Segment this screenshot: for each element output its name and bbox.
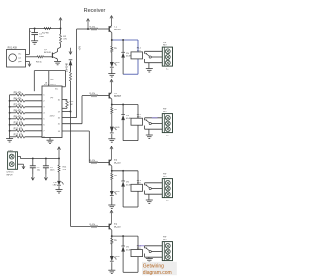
transistor T4 (109, 223, 122, 230)
svg-text:Vcc: Vcc (55, 88, 58, 90)
resistor R7 address A2 (9, 104, 42, 108)
resistor R14 (58, 158, 67, 181)
connector CN1 label (8, 150, 13, 152)
relay RL4 label (137, 245, 142, 250)
wire module pin2 data (26, 56, 38, 58)
resistor R6 address A1 (9, 98, 42, 102)
wire collector channel 3 (111, 166, 113, 171)
LED PWR (53, 181, 64, 187)
resistor R1 (42, 27, 51, 34)
relay RL3 coil (131, 184, 143, 191)
svg-text:out: out (18, 56, 21, 59)
connector CN5 label (163, 237, 167, 241)
ground supply arrow (22, 164, 25, 169)
resistor R4 base (90, 26, 110, 30)
wire pin14 route D2 (62, 131, 89, 163)
svg-text:diagram.com: diagram.com (143, 270, 172, 276)
transistor T3 (109, 159, 122, 166)
resistor R5 address A0 (10, 92, 42, 96)
ground contact channel 1 (146, 69, 153, 72)
resistor R10 address A5 (9, 122, 42, 126)
connector CN1 supply (6, 152, 17, 177)
node A junction (60, 28, 62, 30)
svg-text:LED: LED (53, 185, 57, 187)
svg-text:LED: LED (115, 62, 120, 64)
svg-text:1N: 1N (126, 247, 129, 249)
svg-text:BC549: BC549 (44, 52, 51, 54)
svg-text:R11 47k: R11 47k (14, 128, 24, 131)
svg-text:LED: LED (115, 191, 120, 193)
relay RL2 coil (131, 118, 143, 125)
wire supply negative (18, 163, 24, 165)
svg-text:2272: 2272 (50, 116, 56, 118)
LED 1 (110, 52, 120, 67)
resistor R7 led (111, 105, 118, 114)
capacitor C1 (30, 28, 45, 41)
svg-text:BC557: BC557 (114, 29, 122, 31)
ground module arrow (28, 62, 31, 67)
svg-text:1N: 1N (126, 182, 129, 184)
wire LED 4 to ground (111, 262, 113, 270)
svg-text:R3 1k: R3 1k (36, 62, 43, 64)
ground IC (47, 140, 54, 143)
ground address bus (6, 139, 13, 142)
connector CN2 pin label (166, 69, 169, 71)
resistor R2 (59, 29, 67, 44)
relay RL1 contact (145, 53, 151, 58)
wire bottom channel 4 (123, 271, 138, 273)
wire bottom channel 3 (123, 206, 138, 208)
IC U1 PT2272 (42, 86, 62, 139)
wire base channel 3 (89, 162, 90, 164)
relay RL1 coil (131, 52, 143, 59)
wire address bus (9, 95, 11, 139)
ground LED channel 3 (108, 205, 115, 208)
diode D2 flyback (121, 40, 131, 74)
wire contact NO channel 4 (138, 246, 162, 249)
svg-text:15: 15 (58, 124, 60, 126)
resistor R11 led (111, 236, 118, 244)
svg-text:16: 16 (58, 117, 60, 119)
capacitor C3 (43, 157, 54, 174)
resistor R8 address A3 (9, 110, 42, 114)
wire +V top rail (29, 28, 60, 30)
connector CN4 pin label (166, 200, 169, 202)
wire collector node channel 1 (111, 39, 138, 41)
IC1 PT2272 label (44, 84, 56, 86)
svg-text:R 47k: R 47k (90, 224, 96, 226)
ground C1 (31, 41, 38, 44)
capacitor C3 ground arrow (44, 175, 47, 181)
power arrow feed D1 (69, 48, 72, 55)
ground LED channel 4 (108, 270, 115, 273)
connector CN4 label (163, 174, 167, 178)
power arrow +5V channel 2 (110, 79, 113, 92)
svg-text:R5 47k: R5 47k (14, 92, 23, 95)
resistor R4 (69, 72, 71, 81)
wire contact NO channel 2 (145, 118, 163, 121)
connector CN5 terminal block (162, 242, 172, 261)
wire collector node channel 3 (111, 170, 138, 172)
wire contact NC channel 4 (145, 254, 163, 258)
wire R3 to Q1 base (44, 56, 52, 58)
wire LED 2 to ground (111, 134, 113, 139)
wire D0 label (78, 46, 81, 51)
wire right branch channel 2 (137, 105, 139, 141)
transistor T2 (109, 92, 122, 99)
svg-text:18: 18 (45, 83, 47, 85)
transistor T1 (109, 25, 122, 32)
module RX1 label (8, 47, 18, 50)
svg-text:10: 10 (58, 99, 60, 101)
resistor R12 address A7 (10, 134, 42, 138)
svg-text:INPUT: INPUT (6, 174, 13, 176)
wire module pin3 gnd (26, 61, 30, 63)
svg-text:R7 47k: R7 47k (14, 104, 23, 107)
watermark (142, 262, 177, 276)
wire base channel 4 (71, 226, 91, 228)
resistor R5 led (111, 40, 118, 52)
wire contact ground stem channel 1 (148, 63, 150, 69)
power arrow +5V A1 (59, 18, 62, 29)
ground contact channel 4 (146, 259, 153, 262)
power arrow +5V channel 4 (110, 210, 113, 223)
wire bottom channel 2 (123, 140, 138, 142)
relay RL4 contact (145, 247, 151, 252)
wire right branch channel 3 (137, 171, 139, 207)
resistor R10 base (90, 224, 110, 228)
relay RL3 contact (145, 184, 151, 189)
svg-text:LED: LED (115, 256, 120, 258)
wire collector channel 1 (111, 33, 113, 40)
svg-text:R1 4k7: R1 4k7 (42, 32, 50, 34)
connector CN5 pin label (166, 263, 169, 265)
wire contact ground stem channel 4 (148, 257, 150, 258)
connector CN4 terminal block (162, 179, 172, 198)
svg-text:R 47k: R 47k (90, 26, 96, 28)
relay RL2 contact (145, 119, 151, 124)
svg-text:17: 17 (58, 111, 60, 113)
wire contact COM channel 1 (151, 56, 162, 58)
connector CN2 terminal block (162, 47, 172, 66)
svg-text:12V DC: 12V DC (6, 172, 14, 174)
wire collector channel 2 (111, 99, 113, 104)
wire IC pin18 top stub (45, 71, 54, 86)
module RX1 receiver (7, 50, 26, 68)
wire LED PWR to ground (58, 186, 60, 189)
wire contact COM channel 3 (151, 188, 162, 190)
ground Q1 (54, 61, 61, 64)
diode D1 (69, 60, 73, 72)
svg-text:gnd: gnd (18, 61, 21, 63)
wire contact NC channel 3 (145, 191, 163, 195)
wire LED 1 to ground (111, 68, 113, 73)
resistor R9 address A4 (9, 116, 42, 120)
svg-text:RLY: RLY (163, 176, 167, 178)
resistor R13 oscillator (62, 100, 74, 109)
wire collector node channel 4 (111, 235, 138, 237)
diode D3 flyback (121, 105, 131, 141)
svg-text:R12 47k: R12 47k (14, 134, 24, 137)
svg-text:100u: 100u (39, 36, 45, 38)
wire base channel 1 (77, 28, 91, 30)
wire contact ground stem channel 2 (148, 129, 150, 135)
ground contact channel 2 (146, 135, 153, 138)
power arrow +5V channel 1 (110, 16, 113, 26)
svg-text:100n: 100n (50, 170, 54, 172)
ground contact channel 3 (146, 200, 153, 203)
svg-text:Getwiring: Getwiring (143, 264, 164, 270)
wire module pin1 Vcc (26, 54, 30, 56)
wire collector channel 4 (111, 230, 113, 236)
LED 4 (110, 244, 120, 261)
wire LED 3 to ground (111, 197, 113, 205)
power arrow +5V rail (57, 147, 60, 160)
resistor R11 address A6 (9, 128, 42, 132)
wire pin15 route D1 (62, 96, 82, 124)
svg-text:10u: 10u (37, 170, 40, 172)
svg-text:BC557: BC557 (114, 96, 122, 98)
svg-text:RLY: RLY (163, 45, 167, 47)
relay RL2 label (137, 114, 142, 119)
wire Q1 emitter (57, 59, 59, 61)
svg-text:RLY: RLY (163, 111, 167, 113)
relay RL3 label (137, 180, 142, 185)
wire contact COM channel 2 (151, 118, 162, 124)
wire contact COM channel 4 (151, 251, 162, 253)
svg-text:Vcc: Vcc (50, 79, 53, 81)
svg-text:+5V: +5V (78, 46, 81, 51)
svg-text:R10 47k: R10 47k (14, 122, 24, 125)
connector CN2 label (163, 42, 167, 46)
wire bottom channel 1 (123, 73, 138, 75)
wire module Vcc riser (28, 29, 30, 55)
diode D4 flyback (121, 171, 131, 207)
svg-text:14: 14 (58, 131, 60, 133)
svg-text:Vcc: Vcc (18, 54, 21, 56)
capacitor C2 (30, 157, 40, 174)
svg-text:BC557: BC557 (114, 163, 122, 165)
connector CN3 pin label (166, 135, 169, 137)
wire supply positive rail (18, 157, 60, 159)
svg-text:R6 47k: R6 47k (14, 98, 23, 101)
wire contact NC channel 1 (145, 59, 163, 63)
power arrow +5V A2 (86, 19, 89, 30)
svg-text:R 47k: R 47k (90, 93, 96, 95)
svg-text:1N: 1N (126, 53, 129, 55)
wire IC Vcc route (34, 71, 65, 92)
ground LED channel 1 (108, 74, 115, 77)
LED 3 (110, 180, 120, 196)
diode D1 label (64, 62, 68, 72)
wire pin17 stub (62, 111, 71, 113)
capacitor C2 ground arrow (31, 175, 34, 181)
svg-text:BC557: BC557 (114, 227, 122, 229)
svg-text:RLY: RLY (163, 239, 167, 241)
resistor R3 (36, 56, 44, 64)
wire base channel 2 (82, 95, 91, 97)
wire R2 to Q1 collector (58, 44, 61, 52)
wire contact NO channel 3 (145, 183, 163, 186)
wire contact NC channel 2 (145, 126, 163, 130)
power arrow +5V channel 3 (110, 146, 113, 159)
wire contact NO channel 1 (145, 51, 163, 54)
connector CN3 label (163, 109, 167, 113)
wire IC ground pin (49, 138, 51, 141)
resistor R8 base (90, 160, 110, 164)
svg-text:R 47k: R 47k (90, 160, 96, 162)
svg-text:R9 47k: R9 47k (14, 116, 23, 119)
svg-text:1M: 1M (70, 104, 73, 106)
node pin17 junction (70, 111, 72, 113)
transistor Q1 (44, 49, 58, 59)
relay RL4 coil (131, 250, 143, 257)
wire right branch channel 4 (137, 236, 139, 272)
wire collector node channel 2 (111, 104, 138, 106)
wire contact ground stem channel 3 (148, 194, 150, 200)
ground LED PWR (56, 190, 63, 193)
LED 2 (110, 114, 120, 133)
wire column A down to ch4 (70, 81, 72, 226)
svg-text:1N: 1N (126, 115, 129, 117)
svg-text:Receiver: Receiver (84, 8, 106, 14)
wire right branch channel 1 (137, 40, 139, 74)
resistor R6 base (90, 93, 110, 97)
svg-text:LED: LED (115, 127, 120, 129)
diode D5 flyback (121, 236, 131, 272)
connector CN3 terminal block (162, 114, 172, 133)
svg-text:R8 47k: R8 47k (14, 110, 23, 113)
relay RL1 label (137, 48, 142, 53)
ground LED channel 2 (108, 139, 115, 142)
title (84, 8, 106, 14)
resistor R9 led (111, 171, 118, 180)
wire pin16 route D0 (62, 29, 77, 118)
